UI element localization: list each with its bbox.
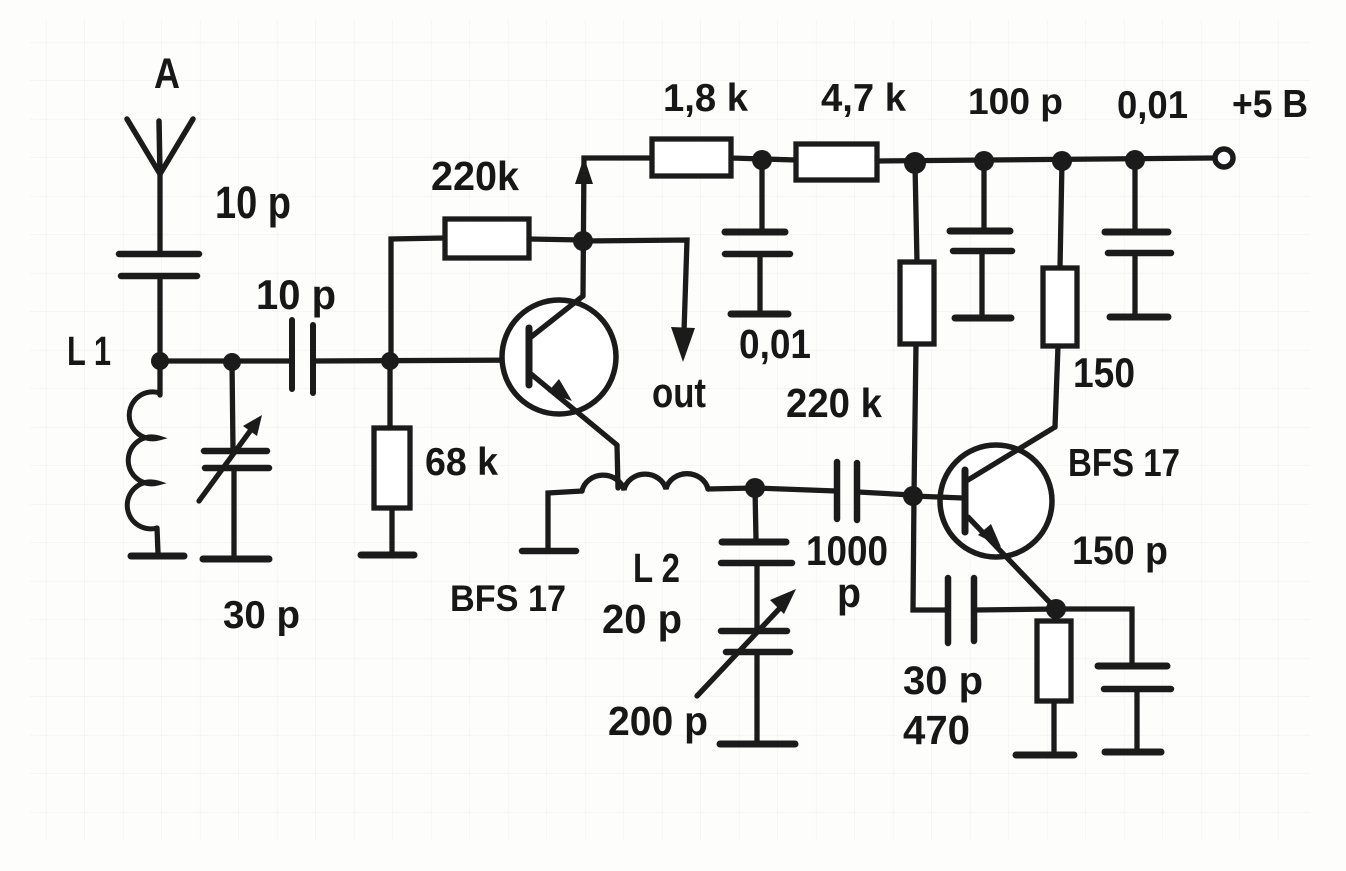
svg-text:150 p: 150 p <box>1072 529 1168 573</box>
svg-text:BFS 17: BFS 17 <box>450 578 566 619</box>
svg-text:470: 470 <box>903 707 970 753</box>
svg-text:+5 B: +5 B <box>1232 83 1308 126</box>
svg-text:10 p: 10 p <box>256 271 336 318</box>
svg-text:out: out <box>652 369 706 416</box>
svg-text:220 k: 220 k <box>786 380 882 426</box>
svg-text:L 1: L 1 <box>67 328 111 374</box>
svg-text:4,7 k: 4,7 k <box>821 77 906 120</box>
svg-text:BFS 17: BFS 17 <box>1068 442 1180 485</box>
svg-text:30 p: 30 p <box>903 659 983 703</box>
svg-text:30 p: 30 p <box>223 594 300 637</box>
svg-text:220k: 220k <box>431 153 519 199</box>
svg-text:A: A <box>154 50 180 98</box>
svg-text:L 2: L 2 <box>633 545 680 591</box>
svg-text:100 p: 100 p <box>968 81 1063 122</box>
svg-text:0,01: 0,01 <box>1117 84 1188 127</box>
svg-text:200 p: 200 p <box>608 698 708 744</box>
svg-text:p: p <box>837 569 861 616</box>
svg-text:68 k: 68 k <box>425 441 498 484</box>
svg-text:20 p: 20 p <box>602 596 682 642</box>
svg-text:1000: 1000 <box>806 527 888 574</box>
svg-text:0,01: 0,01 <box>739 321 811 367</box>
svg-text:150: 150 <box>1073 349 1135 396</box>
svg-text:10 p: 10 p <box>215 177 291 228</box>
svg-text:1,8 k: 1,8 k <box>663 77 748 120</box>
